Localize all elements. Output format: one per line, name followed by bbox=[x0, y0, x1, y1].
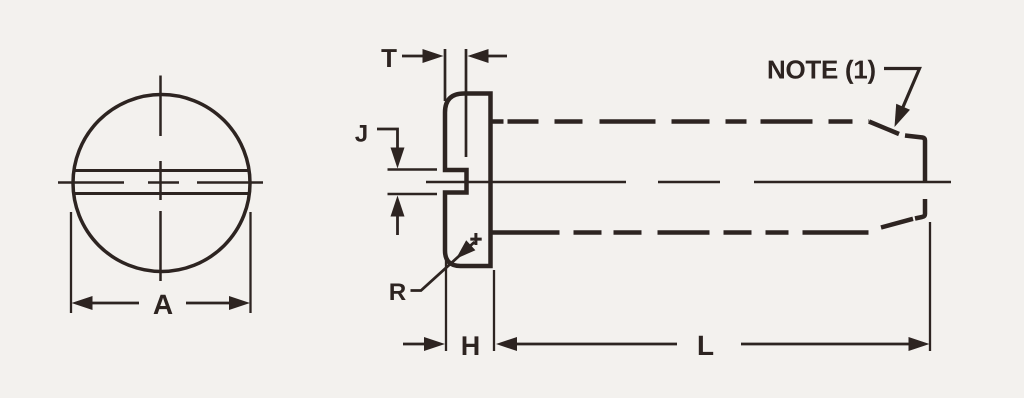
dim A extension line left bbox=[70, 212, 72, 313]
tip end face upper bbox=[905, 136, 925, 182]
dim A line right shaft bbox=[186, 302, 231, 305]
tip bottom chamfer dash bbox=[881, 219, 913, 228]
J arrowhead up bbox=[391, 196, 405, 217]
J lower shaft bbox=[396, 215, 399, 236]
H extension line left bbox=[445, 258, 447, 351]
shank top hidden line (dashed) bbox=[493, 119, 870, 124]
slot lower line (top view) bbox=[74, 192, 249, 195]
T extension line at head face bbox=[444, 49, 447, 101]
label J bbox=[355, 125, 366, 142]
shank bottom hidden line (dashed) bbox=[493, 230, 870, 235]
radius center mark plus bbox=[470, 233, 481, 245]
R leader line bbox=[411, 242, 475, 291]
label H bbox=[463, 336, 479, 355]
dim L left shaft bbox=[515, 343, 677, 346]
dim A line left shaft bbox=[90, 302, 139, 305]
vertical centerline (top view) bbox=[159, 76, 162, 282]
dim T arrowhead right bbox=[468, 49, 489, 63]
dim L arrowhead right bbox=[909, 337, 930, 351]
dim T left shaft bbox=[402, 55, 425, 58]
dim A extension line right bbox=[249, 212, 251, 313]
J leader line bbox=[377, 129, 398, 150]
J extension line top bbox=[388, 168, 438, 171]
label T bbox=[381, 49, 396, 67]
J extension line bottom bbox=[388, 193, 438, 196]
head profile outline (side view) bbox=[445, 94, 491, 267]
L extension line right bbox=[929, 222, 931, 351]
tip top chamfer dash bbox=[869, 122, 899, 135]
dim A arrowhead right bbox=[229, 296, 250, 310]
R arrowhead bbox=[456, 240, 475, 259]
head circle (top view) bbox=[73, 95, 250, 272]
slot upper line (top view) bbox=[74, 169, 249, 172]
NOTE arrowhead bbox=[895, 104, 911, 127]
screw axis centerline (side view) bbox=[426, 181, 951, 184]
label NOTE (1) bbox=[769, 60, 875, 84]
J arrowhead down bbox=[391, 148, 405, 169]
label A bbox=[154, 295, 173, 314]
dim T arrowhead left bbox=[423, 49, 444, 63]
dim L arrowhead left (shared with H) bbox=[496, 337, 517, 351]
label R bbox=[390, 284, 405, 301]
dim L right shaft bbox=[741, 343, 911, 346]
dim H arrowhead left bbox=[424, 337, 445, 351]
NOTE leader line bbox=[884, 69, 920, 108]
dim A arrowhead left bbox=[72, 296, 93, 310]
dim T right shaft bbox=[486, 55, 507, 58]
tip end face lower bbox=[915, 199, 925, 219]
dim H left shaft bbox=[403, 343, 426, 346]
label L bbox=[699, 336, 713, 355]
H extension line right bbox=[493, 270, 495, 351]
horizontal centerline (top view) bbox=[58, 181, 263, 184]
slot bottom depth line (side view, incl. T extension) bbox=[465, 49, 468, 157]
